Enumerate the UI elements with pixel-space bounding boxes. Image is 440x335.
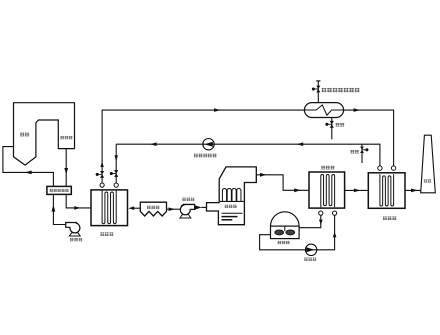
port circle heater right (391, 166, 395, 170)
circulation pump label (304, 258, 316, 261)
arrow into condenser (294, 188, 300, 192)
FGD tower shell (207, 167, 257, 225)
cooling tower label (278, 241, 290, 244)
steam heater label (322, 88, 360, 92)
condenser box (309, 172, 345, 208)
FGD tower label (225, 205, 237, 208)
arrow cooling up (333, 232, 337, 237)
FGD liquid line 3 (222, 219, 233, 221)
boiler vessel (14, 103, 75, 165)
arrow air up (52, 205, 56, 212)
makeup water stub (361, 144, 363, 163)
cooling tower basin (271, 226, 300, 239)
wire condenser to heater (345, 189, 369, 191)
arrow hot supply (214, 108, 221, 112)
wire cooler right riser (115, 144, 117, 183)
wire cooler left riser (101, 110, 103, 183)
arrow cooling down (319, 220, 323, 225)
wire ESP to fan (167, 208, 181, 210)
drain label (335, 123, 344, 127)
valve drain (330, 121, 334, 128)
wire hot return (116, 144, 380, 166)
condenser label (321, 166, 334, 170)
cooling tower dome (271, 212, 300, 226)
arrow condenser to heater (354, 189, 361, 193)
valve cooler outlet (100, 171, 104, 178)
wire air preheater to boiler (3, 147, 54, 187)
arrow return 2 (150, 142, 157, 146)
arrow air left (25, 171, 32, 175)
arrow ESP to cooler (128, 206, 134, 210)
arrow flue down (64, 168, 68, 174)
steam inlet cap (316, 80, 320, 82)
port circle condenser left (319, 211, 323, 215)
wire hot supply (102, 109, 304, 111)
cooler coil (102, 190, 116, 223)
wire air fan to preheater (53, 194, 65, 224)
FGD demister arches (222, 188, 241, 200)
arrow tower outlet (260, 173, 266, 177)
economizer label (60, 136, 72, 139)
arrow riser up (100, 161, 103, 167)
hot water pump (203, 139, 214, 150)
cooler box (91, 190, 128, 226)
FGD liquid line 2 (222, 216, 238, 218)
wire ESP to cooler (134, 207, 140, 209)
wire condenser to cooling tower (299, 215, 321, 228)
arrow riser down (115, 155, 118, 161)
chimney label (424, 179, 431, 182)
FGD tray line (220, 200, 244, 202)
hot water pump label (194, 154, 217, 158)
port circle cooler left (100, 183, 104, 187)
heater box (368, 173, 405, 209)
FD fan label (70, 238, 82, 241)
wire heater to chimney (405, 189, 421, 191)
arrow return 1 (296, 142, 303, 146)
cooling tower shaft (284, 226, 286, 231)
valve makeup (360, 147, 364, 153)
condenser coil (321, 175, 335, 208)
arrow to chimney (411, 189, 418, 193)
air preheater box (47, 186, 71, 194)
ESP label (147, 206, 159, 209)
wire flue economizer down (65, 149, 67, 187)
chimney (421, 135, 436, 193)
FD fan stand (69, 233, 80, 236)
cooler label (100, 232, 113, 236)
ID fan volute (180, 205, 190, 215)
ID fan stand (180, 215, 191, 218)
arrow flue into cooler (74, 206, 80, 210)
wire cooling tower to pump (260, 215, 335, 250)
ID fan label (182, 198, 194, 201)
ID fan outline repaint (183, 205, 194, 210)
heater coil (380, 174, 394, 206)
arrow to heater (354, 108, 361, 112)
wire capsule to heater (344, 110, 394, 166)
port circle cooler right (114, 183, 118, 187)
circulation pump (305, 244, 316, 255)
wire drain (331, 118, 333, 140)
heater label (383, 216, 396, 220)
FGD liquid line 1 (222, 212, 243, 214)
arrow fan to tower (195, 205, 202, 209)
wire flue below preheater (66, 194, 91, 208)
valve steam (316, 86, 320, 93)
arrow ESP to fan (169, 207, 175, 211)
cooling tower fan blades (275, 230, 284, 235)
air preheater label (50, 189, 69, 192)
wire tower outlet (256, 175, 309, 191)
makeup label (350, 150, 359, 154)
valve cooler inlet (114, 170, 118, 177)
boiler label (20, 133, 29, 137)
wire steam inlet (317, 81, 319, 103)
port circle heater left (378, 166, 382, 170)
FD fan volute (70, 223, 80, 233)
ESP box (140, 202, 166, 216)
port circle condenser right (333, 211, 337, 215)
steam heater capsule (304, 103, 343, 118)
